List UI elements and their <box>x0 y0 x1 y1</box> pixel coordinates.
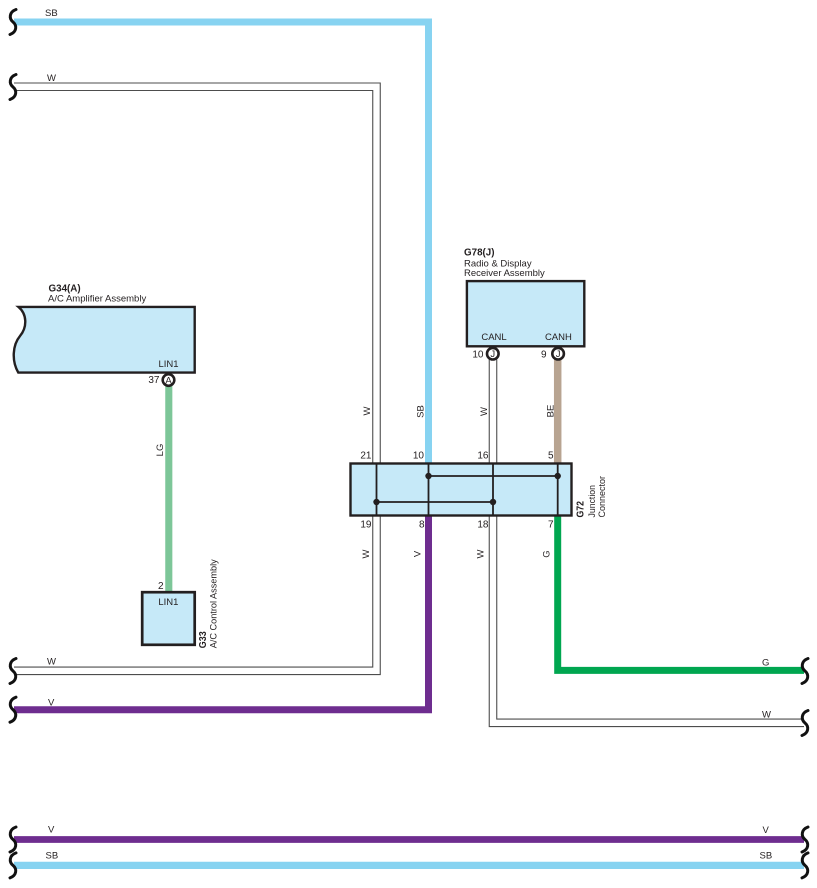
squiggle SB top-left <box>10 10 16 35</box>
connector J circle (CANH) <box>552 348 564 360</box>
squiggle SB bottom-right <box>802 853 808 878</box>
internal bus lower (21 to 18) <box>377 501 494 503</box>
svg-text:J: J <box>556 349 561 360</box>
wire W from junction pin 18 down and right <box>493 514 804 723</box>
internal bus upper (10 to 5) <box>429 475 558 477</box>
svg-text:V: V <box>48 698 55 709</box>
svg-text:LG: LG <box>155 444 166 457</box>
svg-text:16: 16 <box>477 450 489 461</box>
svg-text:7: 7 <box>548 520 554 531</box>
svg-text:A/C Control Assembly: A/C Control Assembly <box>209 559 220 648</box>
wire V bottom full-width <box>14 836 804 843</box>
svg-text:19: 19 <box>360 520 372 531</box>
svg-text:J: J <box>490 349 495 360</box>
squiggle G right <box>802 659 808 684</box>
svg-text:LIN1: LIN1 <box>158 359 178 370</box>
wire V from junction pin 8 down and left <box>14 514 429 710</box>
svg-text:10: 10 <box>472 350 484 361</box>
squiggle SB bottom-left <box>10 853 16 878</box>
squiggle W mid-left <box>10 659 16 684</box>
junction dot 21 <box>373 499 379 505</box>
svg-text:10: 10 <box>413 450 425 461</box>
internal wire col 16-18 <box>492 464 494 516</box>
svg-text:W: W <box>479 407 490 416</box>
svg-text:W: W <box>476 549 487 558</box>
wire W from junction pin 19 down and left <box>14 514 377 671</box>
component G78(J) Radio & Display Receiver Assembly box <box>467 281 584 346</box>
svg-text:G33: G33 <box>198 631 209 648</box>
svg-text:SB: SB <box>760 851 773 862</box>
svg-text:V: V <box>763 825 770 836</box>
svg-text:37: 37 <box>148 375 160 386</box>
component G34(A) A/C Amplifier Assembly box <box>14 307 195 373</box>
svg-text:W: W <box>47 657 56 668</box>
svg-text:SB: SB <box>416 405 427 418</box>
connector J circle (CANL) <box>487 348 499 360</box>
svg-text:V: V <box>413 550 424 557</box>
svg-text:5: 5 <box>548 450 554 461</box>
internal wire col 10-8 <box>428 464 430 516</box>
squiggle W right <box>802 711 808 736</box>
svg-text:V: V <box>48 825 55 836</box>
wire G from junction pin 7 down and right <box>558 514 804 670</box>
wire LG from G34 pin 37 to G33 pin 2 <box>165 386 172 594</box>
junction dot 5 <box>555 473 561 479</box>
svg-text:G78(J): G78(J) <box>464 247 495 258</box>
squiggle W top-left <box>10 75 16 100</box>
svg-text:Connector: Connector <box>597 476 608 518</box>
wire SB bottom full-width <box>14 862 804 869</box>
wire BE from CANH down to junction pin 5 <box>554 360 562 466</box>
squiggle V left <box>10 697 16 722</box>
wire W from CANL down to junction pin 16 <box>489 360 498 466</box>
svg-text:A/C Amplifier Assembly: A/C Amplifier Assembly <box>48 294 146 305</box>
svg-text:W: W <box>762 710 771 721</box>
svg-text:Receiver Assembly: Receiver Assembly <box>464 268 545 279</box>
svg-text:G: G <box>542 550 553 557</box>
svg-text:18: 18 <box>477 520 489 531</box>
svg-text:G: G <box>762 657 769 668</box>
wire W top horizontal+vertical (double line) <box>14 87 377 465</box>
svg-text:LIN1: LIN1 <box>158 597 178 608</box>
connector A circle <box>163 374 175 386</box>
svg-text:8: 8 <box>419 520 425 531</box>
svg-text:CANH: CANH <box>545 332 572 343</box>
squiggle V bottom-right <box>802 827 808 852</box>
component G33 A/C Control Assembly box <box>142 592 195 645</box>
junction dot 10 <box>425 473 431 479</box>
internal wire col 21-19 <box>376 464 378 516</box>
wire SB top horizontal+vertical <box>14 22 429 465</box>
squiggle V bottom-left <box>10 827 16 852</box>
svg-text:SB: SB <box>45 8 58 19</box>
svg-text:BE: BE <box>546 405 557 418</box>
svg-text:9: 9 <box>541 350 547 361</box>
svg-text:W: W <box>361 549 372 558</box>
junction dot 18 <box>490 499 496 505</box>
svg-text:2: 2 <box>158 581 164 592</box>
svg-text:A: A <box>165 376 172 387</box>
internal wire col 5-7 <box>557 464 559 516</box>
svg-text:G72: G72 <box>576 501 587 518</box>
svg-text:W: W <box>47 73 56 84</box>
svg-text:21: 21 <box>360 450 372 461</box>
component G72 junction connector box <box>351 464 572 516</box>
svg-text:W: W <box>362 406 373 415</box>
svg-text:CANL: CANL <box>481 332 506 343</box>
svg-text:SB: SB <box>46 850 59 861</box>
